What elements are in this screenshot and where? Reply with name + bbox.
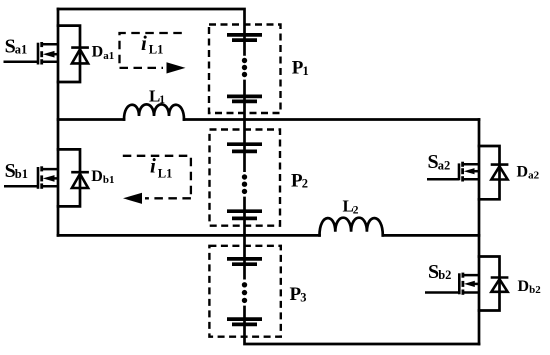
svg-text:i: i: [141, 31, 147, 55]
svg-text:D: D: [92, 44, 104, 61]
svg-text:a2: a2: [528, 170, 540, 182]
svg-text:b2: b2: [438, 268, 451, 282]
svg-text:b2: b2: [529, 284, 541, 296]
svg-text:a1: a1: [103, 50, 114, 62]
svg-text:3: 3: [300, 291, 306, 305]
svg-text:b1: b1: [103, 174, 115, 186]
svg-text:2: 2: [353, 205, 359, 217]
svg-text:L1: L1: [158, 167, 173, 181]
svg-text:i: i: [150, 154, 156, 178]
svg-text:D: D: [91, 168, 103, 185]
svg-text:D: D: [518, 278, 530, 295]
svg-text:1: 1: [159, 94, 165, 106]
svg-text:a1: a1: [15, 42, 27, 56]
svg-text:2: 2: [302, 177, 308, 191]
svg-text:D: D: [517, 164, 529, 181]
svg-text:1: 1: [303, 64, 309, 78]
svg-text:b1: b1: [15, 167, 28, 181]
svg-text:L1: L1: [149, 43, 164, 57]
svg-text:a2: a2: [438, 159, 451, 173]
